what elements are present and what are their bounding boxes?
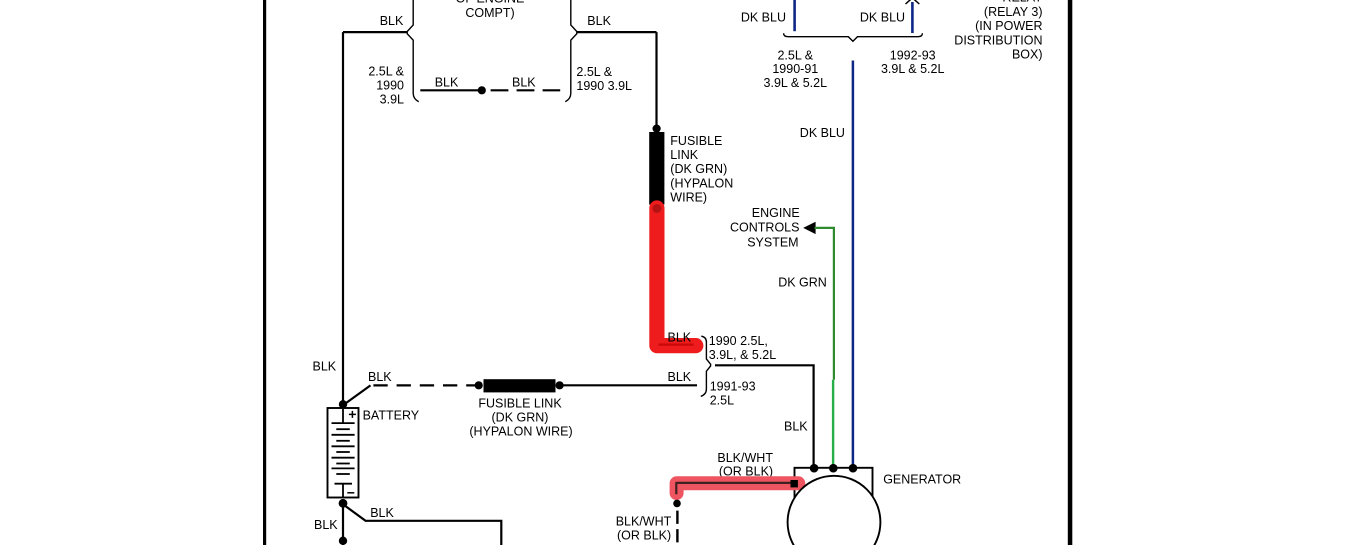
svg-text:DISTRIBUTION: DISTRIBUTION bbox=[954, 33, 1042, 47]
junction dot right of link bbox=[556, 381, 564, 389]
fusible link body horizontal (black bar) bbox=[484, 379, 556, 392]
svg-text:BLK: BLK bbox=[784, 419, 808, 433]
junction dot battery + bbox=[339, 400, 347, 408]
terminal dot green wire bbox=[829, 464, 838, 473]
svg-text:SYSTEM: SYSTEM bbox=[747, 236, 798, 250]
terminal dot black wire bbox=[810, 464, 819, 473]
svg-text:BLK: BLK bbox=[435, 75, 459, 89]
svg-text:2.5L: 2.5L bbox=[710, 394, 734, 408]
svg-text:BLK/WHT: BLK/WHT bbox=[717, 451, 773, 465]
svg-text:2.5L &: 2.5L & bbox=[368, 65, 404, 79]
svg-text:BLK: BLK bbox=[668, 331, 692, 345]
svg-text:DK GRN: DK GRN bbox=[778, 275, 827, 289]
svg-text:BLK: BLK bbox=[512, 75, 536, 89]
svg-text:1992-93: 1992-93 bbox=[890, 49, 936, 63]
label 1990 2.5L, 3.9L, & 5.2L bbox=[709, 334, 776, 362]
svg-text:2.5L &: 2.5L & bbox=[777, 49, 813, 63]
svg-text:BLK: BLK bbox=[313, 359, 337, 373]
svg-text:(RELAY 3): (RELAY 3) bbox=[984, 5, 1043, 19]
terminal dot blue wire bbox=[849, 464, 858, 473]
arrow top (clipped) bbox=[906, 0, 920, 4]
wire vertical left (to battery +) bbox=[342, 32, 344, 402]
wire BLK from link to split brace bbox=[562, 384, 697, 386]
dark red wire core in highlight bbox=[659, 344, 694, 346]
junction dot left of link bbox=[475, 381, 483, 389]
battery B1 bbox=[328, 400, 359, 508]
label RELAY (clipped) (RELAY 3) (IN POWER DISTRIBUTION BOX) bbox=[954, 0, 1043, 62]
svg-text:1990 3.9L: 1990 3.9L bbox=[576, 79, 632, 93]
wire vertical down to fusible link bbox=[655, 32, 657, 127]
wire battery + diagonal bbox=[344, 385, 371, 404]
svg-text:(HYPALON WIRE): (HYPALON WIRE) bbox=[469, 425, 572, 439]
svg-text:3.9L, & 5.2L: 3.9L, & 5.2L bbox=[709, 348, 776, 362]
svg-text:BLK: BLK bbox=[370, 506, 394, 520]
label 2.5L & 1990 3.9L (right of brace) bbox=[576, 65, 632, 93]
battery case bbox=[328, 408, 359, 498]
wire dk grn lower segment bbox=[832, 380, 834, 465]
wire dk blu main vertical bbox=[852, 61, 855, 466]
brace left (ground splice options) bbox=[407, 0, 419, 102]
label ENGINE CONTROLS SYSTEM bbox=[730, 206, 800, 249]
wire battery - down bbox=[342, 505, 344, 545]
dark red junction dot under link bbox=[652, 204, 661, 213]
brace horizontal (dk blu variants) bbox=[784, 33, 923, 41]
svg-text:(OR BLK): (OR BLK) bbox=[617, 529, 671, 543]
generator G1 bbox=[788, 464, 881, 545]
brace right small (1990 / 1991-93 split) bbox=[701, 336, 711, 396]
svg-text:BOX): BOX) bbox=[1012, 48, 1043, 62]
svg-text:BLK/WHT: BLK/WHT bbox=[616, 515, 672, 529]
svg-text:ENGINE: ENGINE bbox=[752, 206, 800, 220]
junction dot (ground wire) bbox=[673, 500, 681, 508]
label BLK/WHT (OR BLK) lower bbox=[616, 515, 672, 543]
svg-text:1991-93: 1991-93 bbox=[710, 379, 756, 393]
highlighted pink wire band (generator to ground) bbox=[677, 483, 799, 493]
wire from split brace to generator (BLK) bbox=[715, 365, 814, 465]
dashed wire down (BLK/WHT) bbox=[676, 511, 678, 545]
svg-text:DK BLU: DK BLU bbox=[860, 10, 905, 24]
battery - mark bbox=[347, 492, 354, 494]
battery bottom stub bbox=[342, 484, 344, 497]
junction dot (top of vertical fusible link) bbox=[653, 125, 661, 133]
svg-text:3.9L: 3.9L bbox=[380, 93, 404, 107]
wire battery - diagonal then right bbox=[344, 505, 501, 545]
wire dk grn bbox=[815, 228, 834, 380]
right page border bbox=[1068, 0, 1073, 545]
label BLK/WHT (OR BLK) upper bbox=[717, 451, 773, 479]
svg-text:DK BLU: DK BLU bbox=[741, 10, 786, 24]
svg-text:BLK: BLK bbox=[368, 370, 392, 384]
svg-text:3.9L & 5.2L: 3.9L & 5.2L bbox=[881, 62, 945, 76]
svg-text:(IN POWER: (IN POWER bbox=[975, 19, 1042, 33]
wire dk blu stub right bbox=[911, 2, 914, 33]
generator terminal box bbox=[795, 468, 873, 498]
svg-text:1990: 1990 bbox=[376, 79, 404, 93]
junction dot bottom bbox=[339, 537, 347, 545]
node G100 label (clipped top text) OF ENGINE COMPT) bbox=[456, 0, 525, 20]
label 1991-93 2.5L bbox=[710, 379, 756, 407]
svg-text:COMPT): COMPT) bbox=[465, 6, 514, 20]
brace right (ground splice options) bbox=[565, 0, 577, 102]
svg-text:BATTERY: BATTERY bbox=[363, 408, 420, 422]
label 2.5L & 1990 3.9L (left of brace) bbox=[368, 65, 404, 107]
fusible link body (black bar) bbox=[649, 132, 664, 205]
svg-text:(DK GRN): (DK GRN) bbox=[670, 162, 727, 176]
svg-text:CONTROLS: CONTROLS bbox=[730, 220, 799, 234]
svg-text:OF ENGINE: OF ENGINE bbox=[456, 0, 525, 6]
svg-text:2.5L &: 2.5L & bbox=[576, 65, 612, 79]
label 1992-93 3.9L & 5.2L bbox=[881, 49, 945, 77]
svg-text:(DK GRN): (DK GRN) bbox=[492, 410, 549, 424]
svg-text:3.9L & 5.2L: 3.9L & 5.2L bbox=[764, 76, 828, 90]
left page border bbox=[263, 0, 266, 545]
wire BLK from left brace to left vertical bbox=[343, 31, 408, 33]
label FUSIBLE LINK (DK GRN) (HYPALON WIRE) bbox=[670, 134, 733, 204]
svg-text:1990-91: 1990-91 bbox=[772, 62, 818, 76]
wire dashed to horizontal fusible link bbox=[373, 384, 476, 386]
highlighted red wire (fusible link to splice) bbox=[657, 208, 696, 346]
wire dk blu stub left bbox=[793, 0, 796, 31]
wire BLK from right brace going right bbox=[577, 31, 657, 33]
svg-text:BLK: BLK bbox=[380, 14, 404, 28]
terminal square at generator bbox=[791, 480, 798, 487]
label FUSIBLE LINK (DK GRN) (HYPALON WIRE) horizontal bbox=[469, 396, 572, 438]
junction dot splice bbox=[478, 86, 486, 94]
svg-text:(HYPALON: (HYPALON bbox=[670, 176, 733, 190]
label 2.5L & 1990-91 3.9L & 5.2L bbox=[764, 49, 828, 90]
svg-text:BLK: BLK bbox=[668, 370, 692, 384]
battery + mark bbox=[349, 411, 356, 418]
dark wire core in pink band bbox=[676, 483, 791, 494]
battery plates bbox=[332, 423, 355, 484]
svg-text:1990 2.5L,: 1990 2.5L, bbox=[709, 334, 768, 348]
svg-text:FUSIBLE LINK: FUSIBLE LINK bbox=[478, 396, 562, 410]
svg-text:FUSIBLE: FUSIBLE bbox=[670, 134, 722, 148]
svg-text:LINK: LINK bbox=[670, 148, 698, 162]
svg-text:WIRE): WIRE) bbox=[670, 190, 707, 204]
svg-text:GENERATOR: GENERATOR bbox=[883, 472, 961, 486]
svg-text:DK BLU: DK BLU bbox=[800, 126, 845, 140]
battery top stub bbox=[342, 409, 344, 423]
arrow to engine controls bbox=[803, 222, 815, 234]
junction dot battery - bbox=[339, 499, 348, 508]
svg-text:BLK: BLK bbox=[314, 518, 338, 532]
svg-text:BLK: BLK bbox=[587, 14, 611, 28]
generator body circle bbox=[788, 476, 881, 545]
